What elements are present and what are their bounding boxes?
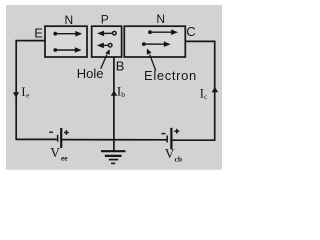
Electron leader arrow — [147, 49, 156, 71]
svg-text:E: E — [34, 25, 43, 40]
Vcb plus sign — [174, 129, 179, 134]
svg-text:N: N — [65, 13, 74, 27]
ground symbol — [101, 151, 126, 163]
electron arrow 2 in emitter box — [53, 47, 81, 53]
Vee minus sign — [49, 131, 53, 133]
grey panel background — [6, 5, 222, 170]
emitter wire: E box to left side down to battery — [16, 41, 57, 140]
collector N region box — [124, 26, 185, 57]
battery Vcb negative plate — [166, 136, 168, 143]
bottom wire between batteries — [62, 139, 167, 141]
svg-text:B: B — [116, 59, 125, 74]
Vee plus sign — [64, 130, 69, 135]
svg-text:C: C — [186, 24, 195, 39]
battery Vee positive plate — [60, 128, 62, 148]
current Ib arrowhead (up) — [111, 90, 117, 95]
battery Vcb positive plate — [170, 128, 172, 150]
Hole leader arrow — [101, 49, 110, 69]
electron arrow 3 in collector box — [148, 29, 178, 35]
electron arrow 1 in emitter box — [53, 31, 82, 37]
current Ic arrowhead (up) — [212, 87, 219, 93]
hole arrow 2 in base box — [97, 43, 112, 49]
hole arrow 1 in base box (points left, open circle) — [97, 31, 116, 37]
svg-text:N: N — [156, 12, 165, 26]
svg-text:Electron: Electron — [144, 68, 197, 83]
base wire from P box down through junction to ground — [113, 57, 115, 151]
electron arrow 4 in collector box — [142, 41, 171, 47]
base P region box — [92, 26, 122, 57]
svg-text:P: P — [101, 13, 109, 27]
Vcb minus sign — [162, 133, 166, 135]
current Ie arrowhead (down) — [13, 92, 19, 98]
svg-text:Hole: Hole — [77, 66, 104, 81]
battery Vee negative plate — [57, 135, 59, 142]
emitter N region box — [45, 26, 87, 57]
collector wire: C box right side down to battery — [172, 41, 215, 140]
